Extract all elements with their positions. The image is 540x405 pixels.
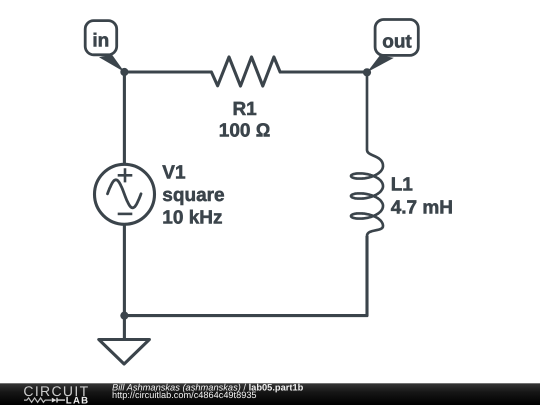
ground symbol triangle	[99, 340, 150, 365]
svg-text:10 kHz: 10 kHz	[162, 207, 222, 228]
svg-text:V1: V1	[162, 162, 186, 183]
out flag pointer	[367, 55, 394, 72]
out label box	[375, 20, 418, 56]
svg-text:L1: L1	[391, 175, 414, 196]
wire top: node in to resistor	[124, 70, 211, 73]
wire left: V1 down to bottom node	[123, 224, 126, 315]
CircuitLab logo: resistor zigzag	[24, 398, 52, 402]
wire left: node in down to V1	[123, 72, 126, 164]
voltage source V1 circle	[95, 164, 155, 224]
CircuitLab logo: diode symbol	[52, 398, 57, 403]
svg-text:R1: R1	[232, 99, 257, 120]
wire top: resistor to node out	[280, 70, 367, 73]
ground wire stub	[123, 316, 126, 340]
V1 sine symbol	[108, 180, 142, 208]
V1 plus sign	[118, 168, 133, 182]
wire bottom: node to bottom-right corner	[124, 236, 367, 316]
in label box	[85, 21, 117, 55]
node dot at out	[363, 68, 371, 76]
svg-text:in: in	[92, 31, 109, 52]
resistor R1	[211, 57, 280, 86]
in flag pointer	[99, 55, 124, 72]
svg-text:http://circuitlab.com/c4864c49: http://circuitlab.com/c4864c49t8935	[112, 390, 257, 400]
svg-text:square: square	[162, 185, 224, 206]
svg-text:LAB: LAB	[66, 396, 90, 405]
V1 minus sign	[118, 213, 133, 216]
svg-text:4.7 mH: 4.7 mH	[391, 198, 453, 219]
inductor L1 coil with leads	[351, 72, 383, 316]
svg-text:out: out	[382, 32, 412, 53]
svg-text:100 Ω: 100 Ω	[219, 120, 271, 141]
node dot bottom-left junction	[120, 312, 128, 320]
node dot at in	[120, 68, 128, 76]
